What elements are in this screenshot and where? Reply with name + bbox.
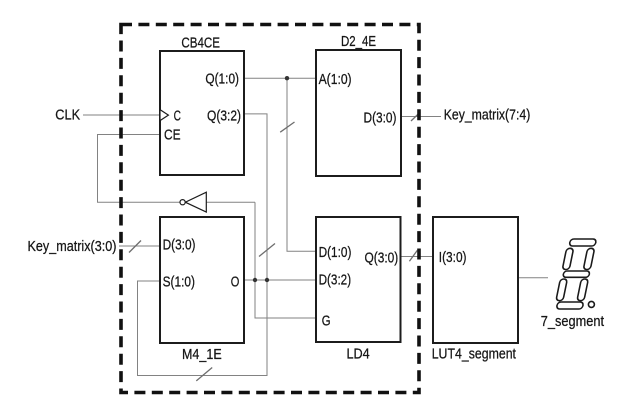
svg-text:Q(3:0): Q(3:0) — [365, 251, 399, 267]
svg-text:CE: CE — [164, 128, 181, 144]
svg-text:Key_matrix(3:0): Key_matrix(3:0) — [28, 239, 117, 255]
svg-text:LUT4_segment: LUT4_segment — [432, 346, 516, 362]
svg-text:Q(3:2): Q(3:2) — [207, 109, 241, 125]
svg-text:D(3:0): D(3:0) — [163, 238, 196, 254]
svg-text:D(1:0): D(1:0) — [319, 245, 352, 261]
svg-text:Q(1:0): Q(1:0) — [205, 71, 239, 87]
svg-text:S(1:0): S(1:0) — [163, 275, 195, 291]
svg-text:G: G — [322, 313, 331, 329]
svg-text:D2_4E: D2_4E — [341, 34, 376, 50]
svg-text:D(3:2): D(3:2) — [319, 273, 352, 289]
svg-text:O: O — [231, 275, 240, 291]
svg-text:C: C — [174, 109, 181, 125]
svg-text:I(3:0): I(3:0) — [439, 250, 467, 266]
svg-text:M4_1E: M4_1E — [182, 347, 222, 363]
svg-text:7_segment: 7_segment — [541, 314, 604, 330]
svg-text:D(3:0): D(3:0) — [364, 111, 397, 127]
svg-text:LD4: LD4 — [347, 346, 370, 362]
svg-text:Key_matrix(7:4): Key_matrix(7:4) — [444, 108, 531, 124]
svg-text:A(1:0): A(1:0) — [319, 72, 352, 88]
svg-text:CLK: CLK — [55, 108, 80, 124]
svg-text:CB4CE: CB4CE — [181, 35, 220, 51]
